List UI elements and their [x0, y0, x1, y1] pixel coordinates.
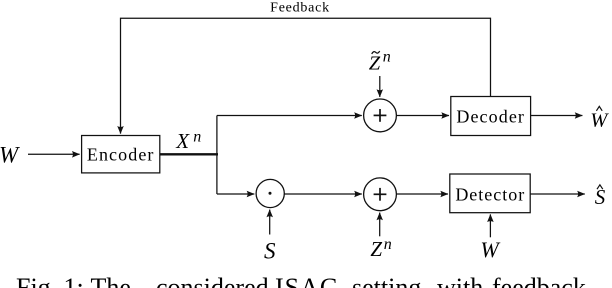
- svg-text:W: W: [480, 237, 500, 262]
- wire Z~n down into adder 1: [379, 76, 381, 97]
- multiplier (dot circle): [256, 179, 284, 207]
- wire Decoder to W-hat output: [531, 115, 583, 117]
- block Decoder: [451, 97, 531, 136]
- wire S up into multiplier: [269, 210, 271, 235]
- wire multiplier to adder 2: [284, 193, 362, 195]
- svg-text:S: S: [264, 239, 276, 264]
- wire W up into Detector: [489, 214, 491, 237]
- wire Z^n up into adder 2: [379, 213, 381, 237]
- adder 1 (plus circle, top path): [364, 99, 397, 132]
- svg-text:Encoder: Encoder: [87, 145, 155, 165]
- svg-text:Z: Z: [370, 237, 382, 261]
- node S-hat output label: [597, 185, 603, 189]
- wire adder 2 to Detector: [396, 193, 448, 195]
- block Detector: [450, 174, 530, 213]
- wire bottom branch to multiplier: [217, 193, 254, 195]
- wire W to Encoder with arrow: [28, 153, 80, 155]
- block Encoder: [82, 136, 160, 173]
- svg-text:Detector: Detector: [455, 184, 525, 204]
- node W-hat output label: [596, 106, 602, 110]
- svg-text:Feedback: Feedback: [270, 0, 330, 15]
- wire X^n trunk (thick) from Encoder to junction: [160, 153, 218, 155]
- svg-text:X: X: [175, 129, 190, 153]
- wire feedback path from Decoder top to Encoder top: [121, 18, 491, 133]
- svg-text:n: n: [193, 128, 201, 145]
- svg-text:S: S: [595, 185, 606, 209]
- svg-text:W: W: [590, 109, 609, 131]
- adder 2 (plus circle, bottom path): [364, 178, 397, 211]
- wire Detector to S-hat output: [530, 193, 585, 195]
- svg-text:n: n: [384, 236, 392, 253]
- svg-text:n: n: [383, 48, 391, 65]
- wire top branch to adder 1: [217, 115, 362, 117]
- wire adder 1 to Decoder: [396, 115, 449, 117]
- svg-text:W: W: [0, 142, 20, 167]
- svg-text:Z: Z: [369, 52, 381, 74]
- wire junction vertical: [216, 116, 218, 195]
- svg-text:Fig.1:TheconsideredISACsetting: Fig.1:TheconsideredISACsettingwithfeedba…: [16, 273, 586, 288]
- svg-text:Decoder: Decoder: [456, 106, 525, 126]
